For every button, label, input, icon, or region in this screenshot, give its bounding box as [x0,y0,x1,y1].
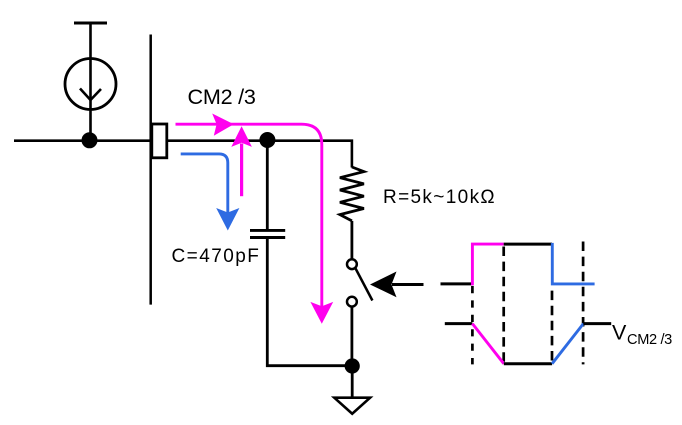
pad rectangle (pin box) [152,124,167,158]
current flow arrow (blue) path [181,154,228,214]
switch S1 top contact [347,259,357,269]
svg-text:CM2 /3: CM2 /3 [188,84,256,109]
svg-text:C=470pF: C=470pF [172,246,261,267]
wire: resistor R to switch S1 [350,221,353,260]
resistor R zigzag [340,167,364,221]
current flow arrowhead down (magenta) [310,302,333,324]
wire: node B down to capacitor C [266,140,269,229]
svg-text:V: V [612,321,627,345]
wire: capacitor C to bottom rail [267,239,352,366]
waveform top: high segment (black) [504,243,552,246]
waveform top: rising edge + high segment (magenta) [472,244,503,285]
ground symbol [334,398,370,414]
wire: top rail from pin box to resistor R [167,141,352,168]
waveform top: falling edge + low segment (blue) [552,243,594,284]
wire: left horizontal rail [14,139,152,142]
current flow arrow (magenta) top path [176,124,322,307]
current source I1 supply bar [74,22,107,25]
svg-text:CM2 /3: CM2 /3 [627,332,672,348]
switch actuate arrow tail [392,283,424,286]
waveform dashed grid lines [472,242,583,365]
waveform bottom: low segment (black) [504,362,552,365]
capacitor C plates [250,230,285,237]
junction node B [259,132,275,148]
waveform top: low segment (black) [441,282,473,285]
switch S1 blade [355,268,372,301]
wire: current source to node A [89,100,92,142]
current source I1 circle [65,59,116,110]
waveform bottom: high segment right (black) [583,322,611,325]
current flow arrowhead down (blue) [216,208,239,231]
junction node A [82,132,98,148]
wire: switch S1 to ground rail [350,307,353,366]
net label V_CM2/3 [612,321,672,349]
waveform bottom: rising ramp (blue) [552,324,583,364]
current flow arrowhead right (magenta) [212,114,234,136]
waveform bottom: high segment (black) [445,322,473,325]
current flow up arrowhead (magenta) [231,126,252,147]
switch S1 bottom contact [347,297,357,307]
svg-text:R=5k~10kΩ: R=5k~10kΩ [383,187,496,208]
junction node C [345,358,360,373]
current source I1 arrow chevron [80,89,101,101]
wire: ground lead [351,366,354,398]
switch actuate arrow head [370,272,397,298]
current source I1 arrow shaft [89,23,92,100]
wire: tall vertical stub line [149,35,152,305]
waveform bottom: falling ramp (magenta) [472,324,503,364]
current flow up arrow line (magenta) [240,144,243,197]
